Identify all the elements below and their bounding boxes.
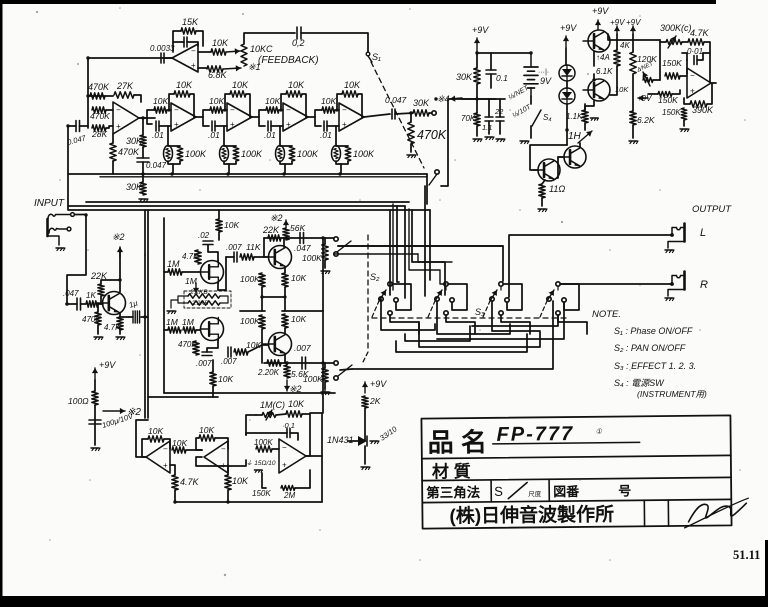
arrow +9V rail [476, 38, 478, 52]
resistor 150K in [665, 73, 680, 79]
svg-text:6.2K: 6.2K [637, 115, 655, 125]
svg-text:470K: 470K [82, 315, 101, 324]
resistor 100K stage 3 [289, 146, 295, 161]
svg-text:2.2KB: 2.2KB [191, 301, 208, 307]
wire supply caps [488, 99, 490, 117]
wire group4 lower contact [472, 315, 558, 326]
svg-text:10K: 10K [615, 85, 629, 94]
capacitor .007 Q3 base [227, 347, 229, 357]
resistor 11K Q2 base [240, 254, 254, 260]
resistor 150K low [658, 92, 672, 97]
wire stage 4 photocell drop [335, 126, 337, 146]
svg-text:.01: .01 [264, 130, 276, 140]
svg-text:1M: 1M [166, 317, 179, 327]
wire trim right [653, 79, 660, 81]
svg-text:10K: 10K [172, 438, 187, 448]
wire stage 3 input [279, 109, 283, 111]
arrow +9V bias [94, 368, 96, 380]
capacitor 0.047 out [391, 109, 393, 119]
capacitor 100u [89, 419, 101, 421]
wire 70K down [476, 126, 478, 136]
svg-text:+: + [191, 61, 196, 70]
svg-text:S₃: S₃ [475, 307, 485, 317]
wire 22K to base node [263, 238, 265, 257]
wire photocell box stage 3 [280, 145, 292, 147]
resistor 100K Q2 load [259, 273, 265, 287]
resistor 10K feedback stage 4 [337, 94, 342, 109]
wire stage 2 output [252, 110, 266, 117]
dashed S2 bend [362, 352, 368, 364]
wire Q5 base [558, 156, 564, 158]
svg-text:尺度: 尺度 [528, 489, 542, 498]
resistor 10K Q2 emitter [282, 273, 288, 287]
wire 22K base-collector [100, 296, 102, 304]
wire stage 3 photocell drop [279, 126, 281, 146]
wire battery down [530, 96, 532, 104]
switch S3 group 2 lever dashed [428, 301, 435, 317]
svg-text:−: − [174, 106, 179, 115]
svg-text:0.1: 0.1 [496, 73, 508, 83]
svg-text:材 質: 材 質 [432, 461, 471, 481]
wire lfoC loop left [246, 415, 256, 435]
svg-text:−: − [191, 47, 196, 56]
op-amp stage 4 [339, 103, 364, 131]
wire bus under stages [68, 173, 427, 175]
wire 28K to plus input [106, 126, 113, 128]
svg-text:100K: 100K [240, 316, 260, 326]
resistor 150K gnd [681, 108, 687, 120]
svg-text:−: − [230, 106, 235, 115]
switch lever bypass [429, 174, 437, 185]
wire 470K Q1 [97, 304, 99, 312]
wire drop 4 [412, 210, 445, 295]
wire 100K pan lower [324, 363, 326, 368]
switch S3 group 1 lever dashed [372, 301, 379, 317]
wire stage 2 photocell drop [223, 126, 225, 146]
ground pan upper [321, 270, 329, 272]
wire pan lower rail [264, 362, 334, 364]
svg-text:L: L [700, 227, 706, 239]
switch S4 [532, 110, 541, 126]
wire supply mid [448, 98, 505, 100]
wire led mid [566, 81, 568, 88]
svg-text:4.7K: 4.7K [690, 28, 710, 38]
arrow *2 pan lower [286, 380, 288, 391]
wire 11ohm [542, 180, 545, 184]
dashed box trimmers [184, 291, 231, 308]
svg-text:S₁ : Phase ON/OFF: S₁ : Phase ON/OFF [614, 326, 693, 336]
wire 470K shunt [410, 113, 412, 122]
svg-text:10K: 10K [212, 38, 229, 48]
svg-text:51.11: 51.11 [733, 548, 760, 562]
resistor 10K input stage 2 [210, 107, 223, 113]
resistor 47K mid [195, 250, 201, 264]
svg-text:10K: 10K [209, 96, 224, 106]
switch S3 group 3 wiring [500, 286, 502, 290]
wire 10K top mid [218, 210, 220, 219]
svg-text:30K: 30K [126, 182, 143, 192]
wire drop 8 [392, 204, 394, 290]
svg-text:+: + [286, 120, 291, 129]
photocoupler 100K stage 2 [220, 146, 229, 162]
title block divider row3 a [490, 480, 492, 502]
svg-text:+9V: +9V [592, 6, 609, 16]
switch S3 group 2 right contact [450, 298, 454, 302]
svg-text:2.20K: 2.20K [257, 368, 280, 377]
svg-text:10K: 10K [176, 80, 193, 90]
svg-text:100K: 100K [303, 374, 323, 384]
wire cap branch [686, 60, 688, 74]
ground input jack [56, 247, 64, 249]
arrow *2 pan upper [285, 220, 287, 228]
wire q7 emitter [585, 101, 594, 110]
switch S2 lower lever [338, 365, 352, 376]
wire 6.2K down [632, 125, 634, 138]
resistor 28K [92, 125, 106, 131]
capacitor 0.2 [296, 27, 298, 39]
svg-text:.007: .007 [226, 243, 242, 252]
wire 300K left [659, 40, 661, 80]
trimmer 2.2KB upper [188, 294, 220, 298]
wire Q2 collector [283, 238, 285, 247]
wire drop 6 [429, 246, 431, 280]
svg-text:0.0033: 0.0033 [150, 44, 175, 53]
signature scribble [688, 503, 746, 522]
resistor 10K osc [211, 49, 226, 55]
wire 100K lfoC [272, 448, 279, 450]
ground trimmer [171, 300, 178, 308]
wire stage 1 input [167, 109, 171, 111]
svg-text:S₂: S₂ [370, 272, 380, 282]
svg-text:−: − [116, 106, 121, 115]
title block divider row4 b [667, 500, 669, 526]
resistor 470K input [92, 107, 106, 113]
wire pair join [530, 145, 567, 170]
op-amp LFO C [279, 439, 306, 473]
resistor 22K [98, 284, 104, 296]
switch S3 group 4 right contact [562, 298, 566, 302]
capacitor feedback inner [173, 41, 184, 43]
resistor 10K feedback stage 3 [281, 94, 286, 109]
capacitor 0.1 lfoC [286, 429, 288, 438]
svg-text:図番: 図番 [553, 484, 580, 499]
wire gate2 [164, 329, 168, 331]
svg-text:1.1K: 1.1K [566, 112, 583, 121]
svg-text:1M(C): 1M(C) [260, 400, 285, 410]
svg-text:10K: 10K [291, 314, 306, 324]
wire bias vertical [94, 380, 96, 391]
node pan upper a [284, 236, 287, 239]
op-amp stage 2 [227, 103, 252, 131]
dashed lever S1 to bypass contact [371, 62, 424, 168]
transistor Q2 mixer upper [269, 246, 292, 269]
LED D1 [559, 65, 575, 81]
wire drop 3 [404, 206, 406, 298]
switch S3 group 3 top contact [499, 282, 503, 286]
svg-text:100K: 100K [241, 149, 263, 159]
wire J2 source [207, 340, 218, 352]
wire bus drop right [429, 210, 431, 246]
node pan upper b [321, 236, 324, 239]
svg-text:470K: 470K [178, 340, 197, 349]
label +9V left arrow [638, 97, 648, 99]
svg-text:100K: 100K [297, 149, 319, 159]
wire minus input U2 [106, 109, 113, 111]
border frame right edge [765, 540, 768, 598]
ground lfoC plus [254, 469, 261, 471]
op-amp stage 3 [283, 103, 308, 131]
switch S3 group 4 pole [547, 297, 551, 301]
resistor 120K [630, 52, 636, 74]
capacitor 22 supply [496, 116, 504, 118]
wire lfoC top loop [256, 414, 262, 416]
photocoupler 100K stage 1 [164, 146, 173, 162]
resistor 1.1K pair [582, 110, 588, 123]
wire 0.01 loop [682, 53, 687, 60]
resistor 100K stage 4 [345, 146, 351, 161]
capacitor .047 pan upper [299, 233, 301, 244]
ground battery [520, 140, 528, 142]
svg-text:※2: ※2 [270, 213, 283, 223]
svg-text:.01: .01 [208, 130, 220, 140]
resistor 1K [86, 301, 98, 307]
wire matrix hook 1 [381, 299, 435, 330]
wire lfo right vertical [321, 413, 323, 502]
svg-text:10K: 10K [344, 80, 361, 90]
wire 390K loop [707, 83, 712, 104]
jack output R [670, 282, 674, 286]
svg-text:30K: 30K [126, 136, 143, 146]
arrow 1M down [195, 283, 197, 293]
svg-text:6.8K: 6.8K [208, 70, 228, 80]
switch S3 group 3 pole [490, 297, 494, 301]
svg-text:10K: 10K [321, 96, 336, 106]
wire lfo feedback stub [310, 412, 322, 414]
node led [565, 128, 568, 131]
svg-text:1.1: 1.1 [482, 123, 492, 132]
wire base Q2 [254, 256, 268, 258]
wire output R run [561, 283, 671, 285]
svg-text:150K: 150K [658, 95, 678, 105]
svg-text:−: − [286, 106, 291, 115]
svg-text:S₁: S₁ [372, 52, 381, 62]
wire *4 to power [462, 98, 496, 100]
wire +9V rail [476, 52, 478, 68]
wire LFO A output [136, 420, 148, 457]
wire Q6 emitter chain [593, 51, 595, 66]
resistor 6.8K [207, 66, 223, 72]
svg-text:.007: .007 [196, 359, 212, 368]
resistor 100K pan lower [322, 368, 328, 382]
capacitor .007 pan lower [301, 357, 303, 369]
wire 150K low [648, 93, 658, 95]
svg-text:−: − [342, 106, 347, 115]
capacitor 0.047 mid [137, 157, 149, 159]
wire led rail [565, 36, 567, 48]
resistor 10K Q3 [282, 314, 288, 328]
resistor 4K [614, 50, 620, 66]
wire Q5 up [579, 143, 581, 147]
svg-text:100μ/10V: 100μ/10V [101, 411, 135, 430]
svg-text:↑4A: ↑4A [596, 53, 610, 62]
wire mid rail upper [240, 310, 265, 312]
ground 470K Q1 [94, 336, 102, 338]
scan speckles [36, 11, 38, 13]
resistor 30K out [395, 113, 413, 114]
svg-text:0·01: 0·01 [687, 47, 703, 56]
transistor Q4 pair [538, 159, 560, 181]
wire mid node down [261, 297, 263, 311]
diode 1N431 [348, 440, 358, 442]
wire lfo bottom [175, 501, 322, 503]
resistor 10K lfoC top [286, 411, 302, 417]
capacitor .01 stage 2 [211, 121, 213, 131]
wire 120K down [632, 34, 634, 52]
wire 10K to pot with arrow [226, 51, 240, 52]
resistor 70K supply [474, 113, 480, 126]
resistor 1M gate2 a [168, 327, 181, 333]
wire pan upper rail [264, 237, 334, 239]
svg-text:100K: 100K [240, 274, 260, 284]
svg-text:−: − [221, 445, 226, 454]
svg-text:30K: 30K [456, 72, 473, 82]
node dot out [409, 111, 413, 115]
resistor 30K vertical [140, 135, 146, 147]
transistor Q6 top [588, 30, 610, 52]
wire U1 feedback loop [173, 31, 181, 52]
svg-text:33/10: 33/10 [378, 424, 399, 443]
resistor 6.2K [630, 111, 636, 125]
svg-text:OUTPUT: OUTPUT [692, 204, 732, 215]
resistor 15K [181, 28, 196, 34]
svg-text:11K: 11K [246, 242, 261, 252]
resistor 10K input stage 1 [154, 107, 167, 113]
dashed gang S3 [372, 317, 566, 319]
resistor 100K lfoC [256, 446, 272, 452]
svg-text:+9V: +9V [560, 23, 577, 33]
capacitor 1u electrolytic [129, 316, 133, 318]
switch S3 group 4 lever dashed [540, 301, 547, 317]
svg-text:22K: 22K [262, 225, 280, 235]
svg-text:470K: 470K [118, 147, 140, 157]
node pan lower a [285, 361, 288, 364]
resistor 470K vertical [110, 143, 116, 161]
svg-text:10K: 10K [232, 80, 249, 90]
switch S2 lower contact b [334, 376, 338, 380]
svg-text:2K: 2K [369, 396, 381, 406]
svg-text:.047: .047 [63, 289, 79, 298]
switch S3 group 2 pole [435, 297, 439, 301]
svg-text:⅓/NET: ⅓/NET [508, 84, 531, 101]
svg-text:−: − [163, 445, 168, 454]
resistor 27K top [114, 92, 134, 98]
capacitor .007 source2 [202, 351, 212, 353]
resistor 10K lfoB [199, 435, 215, 441]
jack input ground stub [48, 236, 60, 245]
resistor 100K stage 1 [177, 146, 183, 161]
wire mid pair top bend [144, 210, 146, 255]
wire top right loop [660, 41, 666, 43]
arrow +9V matrix [364, 382, 366, 393]
resistor 150K lfoC [281, 486, 295, 491]
resistor 4.7K right [688, 39, 704, 45]
switch S3 group 2 lower contact [444, 311, 448, 315]
border frame bottom bar [0, 596, 768, 607]
svg-text:.007: .007 [221, 357, 237, 366]
op-amp U2 input stage [113, 102, 139, 134]
wire U3 out [711, 82, 716, 84]
switch S3 group 2 wiring [445, 286, 447, 290]
underline FP-777 [493, 442, 640, 444]
wire lfoB fb [196, 438, 202, 450]
wire q6 collector right [608, 34, 660, 40]
wire S2 lower to group4 lever [352, 301, 553, 369]
svg-text:30K: 30K [413, 98, 430, 108]
op-amp U1 feedback oscillator [172, 44, 198, 72]
svg-text:−: − [690, 71, 695, 80]
wire left vertical input [67, 126, 69, 209]
title block outer frame [421, 415, 731, 528]
resistor 10K source2 [210, 372, 216, 386]
wire matrix hook 2 [437, 301, 510, 334]
svg-text:号: 号 [618, 483, 631, 498]
svg-text:R: R [700, 279, 708, 291]
wire base Q3 [248, 345, 268, 352]
svg-text:10K: 10K [232, 476, 249, 486]
wire trimmer right [220, 296, 228, 303]
wire lfoA fb [142, 439, 148, 457]
svg-text:(株)日伸音波製作所: (株)日伸音波製作所 [449, 503, 614, 528]
svg-text:470K: 470K [417, 128, 447, 142]
title block row line 3 [422, 499, 731, 502]
capacitor .01 stage 1 [155, 121, 157, 131]
svg-text:10K: 10K [288, 80, 305, 90]
wire mid box left [163, 218, 165, 393]
wire 100K Q3 bottom [261, 329, 263, 363]
wire 0.1 supply [490, 53, 492, 70]
border frame left bar [0, 0, 3, 600]
wire jack down to transistor [67, 215, 86, 305]
svg-text:.007: .007 [294, 343, 311, 353]
wire 1.1K pair [584, 104, 586, 110]
wire S4 down [530, 126, 532, 138]
switch S2 lower contact a [334, 361, 338, 365]
svg-text:※1: ※1 [248, 62, 261, 72]
svg-text:+: + [230, 120, 235, 129]
svg-text:0.047: 0.047 [146, 161, 167, 170]
wire 10K source2 [212, 360, 214, 372]
ground 30K lower [139, 198, 147, 200]
resistor 30K lower [140, 182, 146, 195]
svg-text:27K: 27K [116, 81, 134, 91]
svg-text:1N431: 1N431 [327, 435, 354, 445]
photocoupler 100K stage 4 [332, 146, 341, 162]
ground diode [370, 440, 378, 442]
wire photocell box stage 1 [168, 145, 180, 147]
svg-text:470K: 470K [90, 111, 110, 121]
resistor 10K feedback stage 2 [225, 94, 230, 109]
resistor 10K lfoA [148, 436, 164, 442]
ground Q1 emitter [116, 336, 124, 338]
svg-text:6.1K: 6.1K [596, 67, 613, 76]
wire U1 plus input via 6.8K [198, 67, 207, 69]
wire mid vertical pair a [144, 255, 146, 418]
wire U1 output left [88, 57, 172, 59]
svg-text:4.7K: 4.7K [182, 252, 199, 261]
wire lfoC out [306, 455, 322, 457]
resistor 4.7K lfo [172, 475, 178, 490]
wire q6 to q7 [593, 74, 595, 80]
